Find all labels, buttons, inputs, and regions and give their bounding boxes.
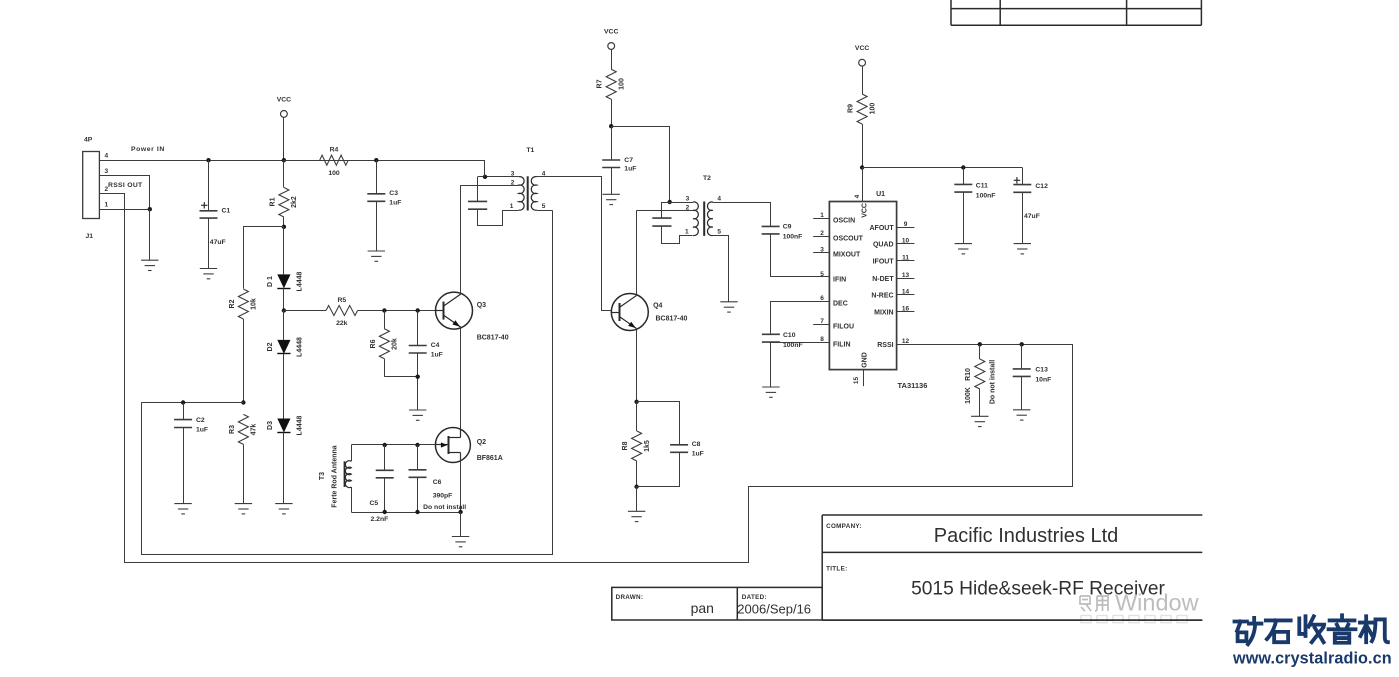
capacitor T2 tank xyxy=(661,202,663,218)
svg-text:C7: C7 xyxy=(624,157,633,164)
resistor R1 2k2 xyxy=(283,160,285,187)
svg-text:Power IN: Power IN xyxy=(131,146,165,153)
svg-text:100K: 100K xyxy=(965,387,972,404)
resistor R7 100 xyxy=(611,49,613,69)
resistor R5 22k xyxy=(284,310,326,312)
svg-text:VCC: VCC xyxy=(277,96,291,103)
svg-text:FILIN: FILIN xyxy=(833,341,851,348)
svg-text:Do not install: Do not install xyxy=(989,360,996,404)
svg-text:VCC: VCC xyxy=(861,203,868,218)
title block xyxy=(612,515,1203,620)
svg-text:COMPANY:: COMPANY: xyxy=(826,523,862,530)
capacitor C4 1uF xyxy=(416,308,420,312)
svg-text:11: 11 xyxy=(902,255,909,262)
U1 pin 9 AFOUT xyxy=(897,227,915,229)
capacitor C1 xyxy=(206,158,210,162)
diode D3 L4448 xyxy=(277,419,290,433)
wire T1 pin3 xyxy=(478,176,519,178)
ground C4 R6 xyxy=(409,410,426,420)
svg-text:R7: R7 xyxy=(597,79,604,88)
wire T3 bottom xyxy=(351,512,460,514)
svg-text:10nF: 10nF xyxy=(1035,376,1051,383)
svg-text:1uF: 1uF xyxy=(389,199,401,206)
svg-text:R2: R2 xyxy=(229,299,236,308)
wire VCC node to T2 pin3 xyxy=(612,127,670,203)
U1 pin 10 QUAD xyxy=(897,243,915,245)
svg-text:1k5: 1k5 xyxy=(644,440,651,452)
svg-text:4: 4 xyxy=(717,195,721,202)
title block bottom border xyxy=(822,619,1202,621)
svg-text:1uF: 1uF xyxy=(431,352,443,359)
U1 pin 2 OSCOUT xyxy=(813,236,829,238)
svg-text:L4448: L4448 xyxy=(297,271,304,291)
svg-text:3: 3 xyxy=(820,246,824,253)
wire C2 node xyxy=(141,402,243,404)
svg-text:TITLE:: TITLE: xyxy=(826,565,847,572)
ground J1 xyxy=(141,260,158,270)
svg-text:OSCOUT: OSCOUT xyxy=(833,235,864,242)
svg-text:Do not install: Do not install xyxy=(423,504,466,511)
svg-text:N-DET: N-DET xyxy=(872,276,894,283)
transistor Q2 BF861A xyxy=(435,428,470,463)
watermark activate windows xyxy=(1080,596,1108,611)
svg-text:R9: R9 xyxy=(848,104,855,113)
resistor R3 47k xyxy=(238,414,248,444)
ground R8 C8 xyxy=(628,511,645,521)
wire J1 pin4 power rail xyxy=(99,160,485,162)
svg-text:47k: 47k xyxy=(251,424,258,436)
svg-text:R4: R4 xyxy=(330,147,339,154)
svg-text:C13: C13 xyxy=(1035,367,1048,374)
svg-text:1uF: 1uF xyxy=(196,427,208,434)
svg-text:1uF: 1uF xyxy=(692,451,704,458)
svg-text:100nF: 100nF xyxy=(783,342,803,349)
svg-text:BC817-40: BC817-40 xyxy=(656,316,688,323)
svg-text:2k2: 2k2 xyxy=(291,196,298,208)
wire C2 node to T1 pin5 xyxy=(142,211,553,555)
svg-text:5: 5 xyxy=(717,228,721,235)
ground D3 xyxy=(275,504,292,514)
svg-text:C12: C12 xyxy=(1035,183,1048,190)
svg-text:BF861A: BF861A xyxy=(477,455,503,462)
svg-text:OSCIN: OSCIN xyxy=(833,218,855,225)
svg-text:9: 9 xyxy=(904,221,908,228)
svg-text:Ferte Rod Antenna: Ferte Rod Antenna xyxy=(332,445,339,507)
capacitor C8 1uF xyxy=(637,402,680,445)
svg-text:47uF: 47uF xyxy=(1024,213,1040,220)
svg-text:100: 100 xyxy=(619,78,626,90)
diode D1 L4448 xyxy=(283,227,285,275)
svg-text:GND: GND xyxy=(861,352,868,368)
svg-text:R5: R5 xyxy=(337,297,346,304)
svg-text:DATED:: DATED: xyxy=(742,594,767,601)
svg-text:R6: R6 xyxy=(370,339,377,348)
svg-text:20k: 20k xyxy=(392,338,399,350)
capacitor C13 10nF xyxy=(1020,342,1024,346)
svg-text:L4448: L4448 xyxy=(297,337,304,357)
svg-text:T2: T2 xyxy=(703,175,711,182)
ground T3 C5 C6 xyxy=(452,537,469,547)
svg-text:C5: C5 xyxy=(370,500,379,507)
capacitor T1 tank xyxy=(477,177,479,202)
wire T1 pin4 to Q4 base xyxy=(537,177,612,311)
svg-text:4P: 4P xyxy=(84,137,93,144)
svg-text:IFIN: IFIN xyxy=(833,276,846,283)
svg-text:RSSI: RSSI xyxy=(877,342,893,349)
svg-text:2006/Sep/16: 2006/Sep/16 xyxy=(737,602,811,617)
connector J1 4P xyxy=(83,152,100,219)
svg-text:15: 15 xyxy=(853,377,860,385)
svg-text:VCC: VCC xyxy=(604,29,618,36)
svg-text:3: 3 xyxy=(686,195,690,202)
ground C1 xyxy=(200,269,217,279)
svg-text:16: 16 xyxy=(902,305,910,312)
wire T1 pin5 xyxy=(537,210,553,212)
revision table top right xyxy=(951,0,1201,25)
svg-text:Q2: Q2 xyxy=(477,439,486,446)
svg-text:2.2nF: 2.2nF xyxy=(371,516,389,523)
capacitor C7 1uF xyxy=(611,126,613,160)
svg-text:J1: J1 xyxy=(86,233,94,240)
wire T2 pin2 to Q4 collector xyxy=(636,210,693,212)
wire Q3 collector to T1 pin2 xyxy=(460,185,462,294)
svg-text:Q3: Q3 xyxy=(477,302,486,309)
svg-text:C3: C3 xyxy=(389,190,398,197)
resistor R10 100K do not install xyxy=(978,342,982,346)
wire J1 pin3 to ground xyxy=(100,176,150,210)
svg-text:22k: 22k xyxy=(336,320,348,327)
capacitor C6 390pF xyxy=(415,443,419,447)
wire VCC node to U1 pin4 xyxy=(862,168,864,202)
resistor R9 100 xyxy=(862,66,864,94)
power VCC right xyxy=(859,59,866,66)
svg-text:1: 1 xyxy=(820,212,824,219)
svg-text:100nF: 100nF xyxy=(976,192,996,199)
inductor T3 Ferte Rod Antenna xyxy=(351,445,353,461)
crystalradio logo xyxy=(1235,615,1388,644)
svg-text:1uF: 1uF xyxy=(624,166,636,173)
ground R10 xyxy=(971,416,988,426)
wire T2 pin3 xyxy=(662,202,693,204)
wire VCC to rail xyxy=(283,117,285,160)
U1 pin 1 OSCIN xyxy=(813,218,829,220)
svg-text:10: 10 xyxy=(902,238,910,245)
svg-text:Q4: Q4 xyxy=(653,303,662,310)
IC U1 TA31136 xyxy=(829,202,896,370)
svg-text:T1: T1 xyxy=(526,147,534,154)
wire R8 to ground xyxy=(636,487,638,512)
svg-text:QUAD: QUAD xyxy=(873,242,894,249)
U1 pin 16 MIXIN xyxy=(897,311,915,313)
svg-text:www.crystalradio.cn: www.crystalradio.cn xyxy=(1232,649,1392,667)
capacitor C11 100nF xyxy=(961,165,965,169)
svg-text:14: 14 xyxy=(902,288,910,295)
capacitor C5 2.2nF xyxy=(383,443,387,447)
power VCC left xyxy=(281,111,288,118)
svg-text:13: 13 xyxy=(902,272,910,279)
svg-text:5015 Hide&seek-RF Receiver: 5015 Hide&seek-RF Receiver xyxy=(911,579,1165,600)
svg-text:8: 8 xyxy=(820,336,824,343)
wire Q4 collector xyxy=(636,210,638,295)
svg-text:C11: C11 xyxy=(976,183,988,190)
svg-text:1: 1 xyxy=(685,228,689,235)
wire Q2 gate xyxy=(351,444,435,446)
wire power rail down to T1 pin3 xyxy=(484,160,486,177)
svg-text:2: 2 xyxy=(820,230,824,237)
svg-text:D3: D3 xyxy=(267,421,274,430)
ground C13 xyxy=(1013,410,1030,420)
wire Q2 source to ground node xyxy=(460,454,462,513)
wire T2 pin5 to ground xyxy=(713,236,729,302)
capacitor C12 47uF xyxy=(1022,168,1024,185)
svg-text:C2: C2 xyxy=(196,417,205,424)
svg-text:TA31136: TA31136 xyxy=(898,381,928,390)
wire J1 pin2 RSSI loop xyxy=(100,194,1073,563)
resistor R6 20k xyxy=(382,308,386,312)
svg-text:100nF: 100nF xyxy=(783,233,803,240)
svg-text:DEC: DEC xyxy=(833,301,848,308)
U1 pin 14 N-REC xyxy=(897,294,915,296)
svg-text:pan: pan xyxy=(691,600,714,616)
svg-text:390pF: 390pF xyxy=(433,493,453,500)
svg-text:10k: 10k xyxy=(251,298,258,310)
svg-text:N-REC: N-REC xyxy=(871,292,893,299)
wire J1 pin1 to ground xyxy=(99,209,149,211)
svg-text:6: 6 xyxy=(820,295,824,302)
svg-text:C9: C9 xyxy=(783,224,792,231)
svg-text:Pacific Industries Ltd: Pacific Industries Ltd xyxy=(934,525,1119,547)
svg-text:T3: T3 xyxy=(319,472,326,480)
svg-text:U1: U1 xyxy=(876,191,885,198)
svg-text:100: 100 xyxy=(869,103,876,115)
ground T2 pin5 xyxy=(720,302,737,312)
svg-text:3: 3 xyxy=(105,168,109,175)
svg-text:D2: D2 xyxy=(267,342,274,351)
svg-text:4: 4 xyxy=(105,152,109,159)
svg-text:D 1: D 1 xyxy=(267,276,274,287)
svg-text:1: 1 xyxy=(510,203,514,210)
wire T2 pin4 to C9 xyxy=(713,203,771,227)
svg-text:100: 100 xyxy=(328,170,340,177)
svg-text:C6: C6 xyxy=(433,479,442,486)
wire Q4 emitter xyxy=(636,329,638,402)
svg-text:IFOUT: IFOUT xyxy=(873,259,895,266)
resistor R8 1k5 xyxy=(636,402,638,431)
ground C7 xyxy=(603,194,620,204)
svg-text:4: 4 xyxy=(854,194,861,198)
svg-text:RSSI OUT: RSSI OUT xyxy=(108,182,143,189)
diode D2 L4448 xyxy=(283,311,285,340)
svg-text:47uF: 47uF xyxy=(210,239,226,246)
U1 pin15 GND stub xyxy=(863,370,865,387)
svg-text:BC817-40: BC817-40 xyxy=(477,335,509,342)
ground C11 xyxy=(955,244,972,254)
svg-text:C4: C4 xyxy=(431,342,440,349)
capacitor C2 1uF xyxy=(183,403,185,420)
svg-text:R1: R1 xyxy=(269,197,276,206)
ground C10 xyxy=(762,387,779,397)
svg-text:MIXIN: MIXIN xyxy=(874,309,893,316)
svg-text:R10: R10 xyxy=(965,368,972,381)
wire Q3 emitter to Q2 drain xyxy=(460,327,462,437)
svg-text:FILOU: FILOU xyxy=(833,324,854,331)
svg-text:DRAWN:: DRAWN: xyxy=(616,594,644,601)
svg-text:AFOUT: AFOUT xyxy=(869,225,894,232)
U1 pin 3 MIXOUT xyxy=(813,252,829,254)
ground C3 xyxy=(368,251,385,261)
svg-text:MIXOUT: MIXOUT xyxy=(833,252,861,259)
wire T1 pin2 to Q3 collector xyxy=(461,185,519,187)
svg-text:1: 1 xyxy=(105,201,109,208)
U1 pin 7 FILOU xyxy=(813,324,829,326)
svg-text:C8: C8 xyxy=(692,441,701,448)
ground R3 xyxy=(235,504,252,514)
capacitor C3 1uF xyxy=(374,158,378,162)
transistor Q4 BC817-40 xyxy=(611,294,648,331)
wire VCC node to C11 C12 xyxy=(862,167,1022,169)
svg-text:R3: R3 xyxy=(229,425,236,434)
U1 pin 11 IFOUT xyxy=(897,260,915,262)
svg-text:C10: C10 xyxy=(783,332,796,339)
ground C12 xyxy=(1014,244,1031,254)
svg-text:5: 5 xyxy=(820,271,824,278)
resistor R4 100 xyxy=(284,160,320,162)
svg-text:5: 5 xyxy=(542,203,546,210)
watermark faint second line xyxy=(1081,616,1187,623)
U1 pin 13 N-DET xyxy=(897,278,915,280)
svg-text:R8: R8 xyxy=(622,441,629,450)
resistor R2 10k xyxy=(244,227,284,289)
transistor Q3 BC817-40 xyxy=(436,292,473,329)
capacitor C9 100nF xyxy=(762,226,780,234)
power VCC middle xyxy=(608,43,615,50)
title block bottom border redraw over watermark xyxy=(822,619,1202,621)
svg-text:L4448: L4448 xyxy=(297,415,304,435)
svg-text:7: 7 xyxy=(820,318,824,325)
capacitor C10 100nF xyxy=(771,302,830,335)
svg-text:VCC: VCC xyxy=(855,45,869,52)
svg-text:C1: C1 xyxy=(222,208,231,215)
ground C2 xyxy=(174,504,191,514)
